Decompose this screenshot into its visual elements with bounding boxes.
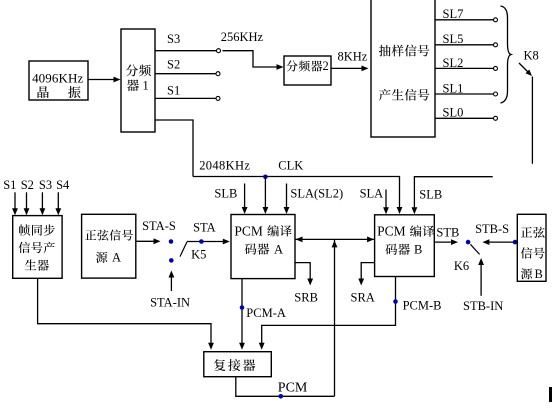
wire SL0 output xyxy=(435,117,494,119)
svg-text:STA-S: STA-S xyxy=(142,219,176,233)
wire SLA into codecB xyxy=(385,190,387,212)
wire STB from codecB xyxy=(434,241,455,243)
svg-text:4096KHz: 4096KHz xyxy=(32,71,83,86)
box sine-source-A xyxy=(82,214,136,278)
junction dot PCM-A xyxy=(240,305,245,310)
arrowhead S input x42.4 xyxy=(40,208,46,215)
svg-text:STB-S: STB-S xyxy=(475,222,509,236)
svg-text:1: 1 xyxy=(143,79,149,93)
wire K8 common down xyxy=(531,77,533,164)
label JingZhen (crystal) xyxy=(38,86,49,98)
svg-text:S1: S1 xyxy=(3,178,16,192)
box PCM-codec-A xyxy=(231,215,295,279)
svg-text:S1: S1 xyxy=(167,83,180,97)
svg-text:S4: S4 xyxy=(56,178,70,192)
svg-text:STB: STB xyxy=(436,226,459,240)
arrowhead link into codecB xyxy=(367,237,374,243)
svg-text:SL0: SL0 xyxy=(443,106,464,120)
arrowhead SRA xyxy=(358,279,364,286)
wire SL7 output xyxy=(435,19,494,21)
label FenPinQi 2 xyxy=(286,60,322,71)
box sine-source-B xyxy=(517,214,546,281)
svg-text:PCM: PCM xyxy=(377,224,406,239)
label ZhenTongBu xyxy=(19,224,55,235)
brace K8 selector xyxy=(501,6,512,103)
svg-text:SLA: SLA xyxy=(360,187,384,201)
arrowhead STA-S xyxy=(154,238,161,244)
junction dot STA xyxy=(199,239,204,244)
arrowhead SLA(SL2) into codecA xyxy=(284,207,290,214)
wire SRB xyxy=(295,263,310,283)
svg-text:K5: K5 xyxy=(191,247,206,261)
wire STA-S from sourceA xyxy=(136,240,158,242)
arrowhead into sampling box xyxy=(362,66,369,72)
svg-text:A: A xyxy=(274,242,283,256)
svg-text:2: 2 xyxy=(323,59,329,73)
label XinHaoChan xyxy=(19,242,55,253)
junction dot PCM xyxy=(279,394,284,399)
svg-text:SL1: SL1 xyxy=(443,81,464,95)
box multiplexer (FuJieQi) xyxy=(204,352,271,377)
wire CLK into codecA xyxy=(264,177,266,212)
label Yuan B xyxy=(521,268,532,279)
arrowhead into divider1 xyxy=(114,77,121,83)
wire oscillator to divider1 xyxy=(88,79,118,81)
wire PCM-B xyxy=(262,277,396,348)
svg-text:SL2: SL2 xyxy=(443,56,464,70)
wire STA into codecA xyxy=(187,241,227,243)
box divider1 (FenPinQi 1) xyxy=(121,29,155,132)
wire PCM-A xyxy=(241,279,243,348)
arrowhead S input x15 xyxy=(12,208,18,215)
svg-text:SLB: SLB xyxy=(214,187,237,201)
label MaQi A xyxy=(245,243,269,254)
contact dot STB xyxy=(466,240,471,245)
svg-text:S2: S2 xyxy=(21,178,34,192)
arrowhead SRB xyxy=(307,279,313,286)
switch K6 lever xyxy=(470,244,479,254)
wire STB-IN arrow xyxy=(480,261,482,296)
switch K5 lever xyxy=(180,242,187,257)
switch K8 lever xyxy=(519,63,530,74)
label MaQi B xyxy=(385,244,409,255)
terminal circle SL0 xyxy=(494,116,498,120)
svg-text:B: B xyxy=(414,243,422,257)
svg-text:K8: K8 xyxy=(524,49,539,63)
arrowhead into divider2 xyxy=(277,64,284,70)
svg-text:256KHz: 256KHz xyxy=(221,30,264,44)
svg-text:S3: S3 xyxy=(39,178,52,192)
svg-text:PCM-B: PCM-B xyxy=(403,299,442,313)
wire S input arrow x15 xyxy=(14,192,16,213)
contact dot STB-S xyxy=(513,240,518,245)
arrowhead CLK into codecB xyxy=(397,207,403,214)
label FuJieQi xyxy=(214,359,255,371)
arrowhead S input x58.3 xyxy=(55,208,61,215)
svg-text:SLB: SLB xyxy=(419,188,442,202)
wire SL5 output xyxy=(435,44,494,46)
wire divider2 to sampling box xyxy=(331,67,366,69)
wire S input arrow x42.4 xyxy=(41,192,43,213)
junction dot on CLK bus xyxy=(263,175,268,180)
svg-text:SL5: SL5 xyxy=(443,32,464,46)
svg-text:SRB: SRB xyxy=(294,290,318,304)
terminal circle SL1 xyxy=(494,92,498,96)
arrowhead framesync into mux xyxy=(208,343,214,350)
label ZhengXian B1 xyxy=(521,227,545,238)
wire STA-IN arrow xyxy=(170,273,172,291)
wire S3 output xyxy=(155,50,217,52)
label ChouYangXinHao xyxy=(379,45,429,57)
label ZhengXianXinHao xyxy=(85,229,133,240)
wire SL2 output xyxy=(435,67,494,69)
terminal circle S2 xyxy=(216,72,220,76)
wire S2 output xyxy=(155,73,216,75)
wire divider1 to 2048KHz bus xyxy=(155,120,193,177)
box sampling-signal-generator xyxy=(371,0,435,137)
svg-text:K6: K6 xyxy=(454,259,469,273)
cursor block xyxy=(549,387,552,402)
contact dot STA-S xyxy=(169,239,174,244)
arrowhead PCM-A into mux xyxy=(239,343,245,350)
wire SLB into codecA xyxy=(244,184,246,212)
wire S input arrow x26.5 xyxy=(26,192,28,213)
wire S1 output xyxy=(155,97,216,99)
terminal circle SL5 xyxy=(494,43,498,47)
label FenPin xyxy=(126,64,151,76)
svg-text:PCM-A: PCM-A xyxy=(246,306,286,320)
terminal circle SL7 xyxy=(494,18,498,22)
box PCM-codec-B xyxy=(375,215,435,277)
terminal circle S1 xyxy=(216,96,220,100)
arrowhead STB-S xyxy=(482,239,489,245)
label XinHao B2 xyxy=(521,247,545,258)
arrowhead CLK into codecA xyxy=(263,207,269,214)
arrowhead PCM loop up xyxy=(332,240,338,247)
terminal circle S3 xyxy=(217,49,221,53)
wire codecA-codecB link xyxy=(295,238,375,240)
wire SL1 output xyxy=(435,93,494,95)
box divider2 (FenPinQi 2) xyxy=(284,56,331,85)
box crystal-oscillator 4096KHz xyxy=(29,61,88,100)
wire SRA xyxy=(361,263,374,283)
wire 2048KHz CLK bus xyxy=(193,177,400,212)
contact dot STA-IN xyxy=(169,258,174,263)
junction dot PCM-B xyxy=(393,299,398,304)
svg-text:CLK: CLK xyxy=(278,158,303,172)
svg-text:B: B xyxy=(535,267,543,281)
arrowhead STB-IN xyxy=(478,258,484,265)
wire PCM output xyxy=(236,377,335,397)
wire S input arrow x58.3 xyxy=(57,192,59,213)
svg-text:S3: S3 xyxy=(167,32,180,46)
arrowhead STA into codecA xyxy=(223,239,230,245)
arrowhead S input x26.5 xyxy=(24,208,30,215)
svg-text:STA: STA xyxy=(193,221,216,235)
wire 256KHz to divider2 xyxy=(223,51,282,67)
wire STB-S from sourceB xyxy=(485,241,517,243)
arrowhead SLA into codecB xyxy=(383,207,389,214)
svg-text:SL7: SL7 xyxy=(443,7,464,21)
wire SLA(SL2) into codecA xyxy=(286,184,288,212)
wire SLB into codecB xyxy=(414,177,492,212)
label ShengQi xyxy=(25,259,49,270)
svg-text:8KHz: 8KHz xyxy=(338,50,368,64)
svg-text:STA-IN: STA-IN xyxy=(150,296,190,310)
wire PCM loop vertical xyxy=(334,239,336,396)
arrowhead STB xyxy=(451,239,458,245)
svg-text:S2: S2 xyxy=(167,58,180,72)
label Yuan A xyxy=(96,252,107,263)
svg-text:PCM: PCM xyxy=(278,381,308,396)
arrowhead link into codecA xyxy=(296,237,303,243)
svg-text:A: A xyxy=(112,250,121,264)
arrowhead SLB into codecA xyxy=(242,207,248,214)
svg-text:SLA(SL2): SLA(SL2) xyxy=(290,187,343,201)
arrowhead STA-IN xyxy=(169,271,175,278)
arrowhead PCM-B into mux xyxy=(259,343,265,350)
arrowhead SLB into codecB xyxy=(412,207,418,214)
svg-text:SRA: SRA xyxy=(351,290,375,304)
arrowhead K8 lever xyxy=(526,70,533,77)
label Qi 1 xyxy=(127,79,139,91)
wire framesync to mux xyxy=(38,278,211,347)
box frame-sync-generator xyxy=(13,216,62,279)
terminal circle SL2 xyxy=(494,66,498,70)
label ChanShengXinHao xyxy=(379,89,429,101)
svg-text:2048KHz: 2048KHz xyxy=(199,158,250,172)
svg-text:PCM: PCM xyxy=(234,223,263,238)
svg-text:STB-IN: STB-IN xyxy=(463,299,503,313)
